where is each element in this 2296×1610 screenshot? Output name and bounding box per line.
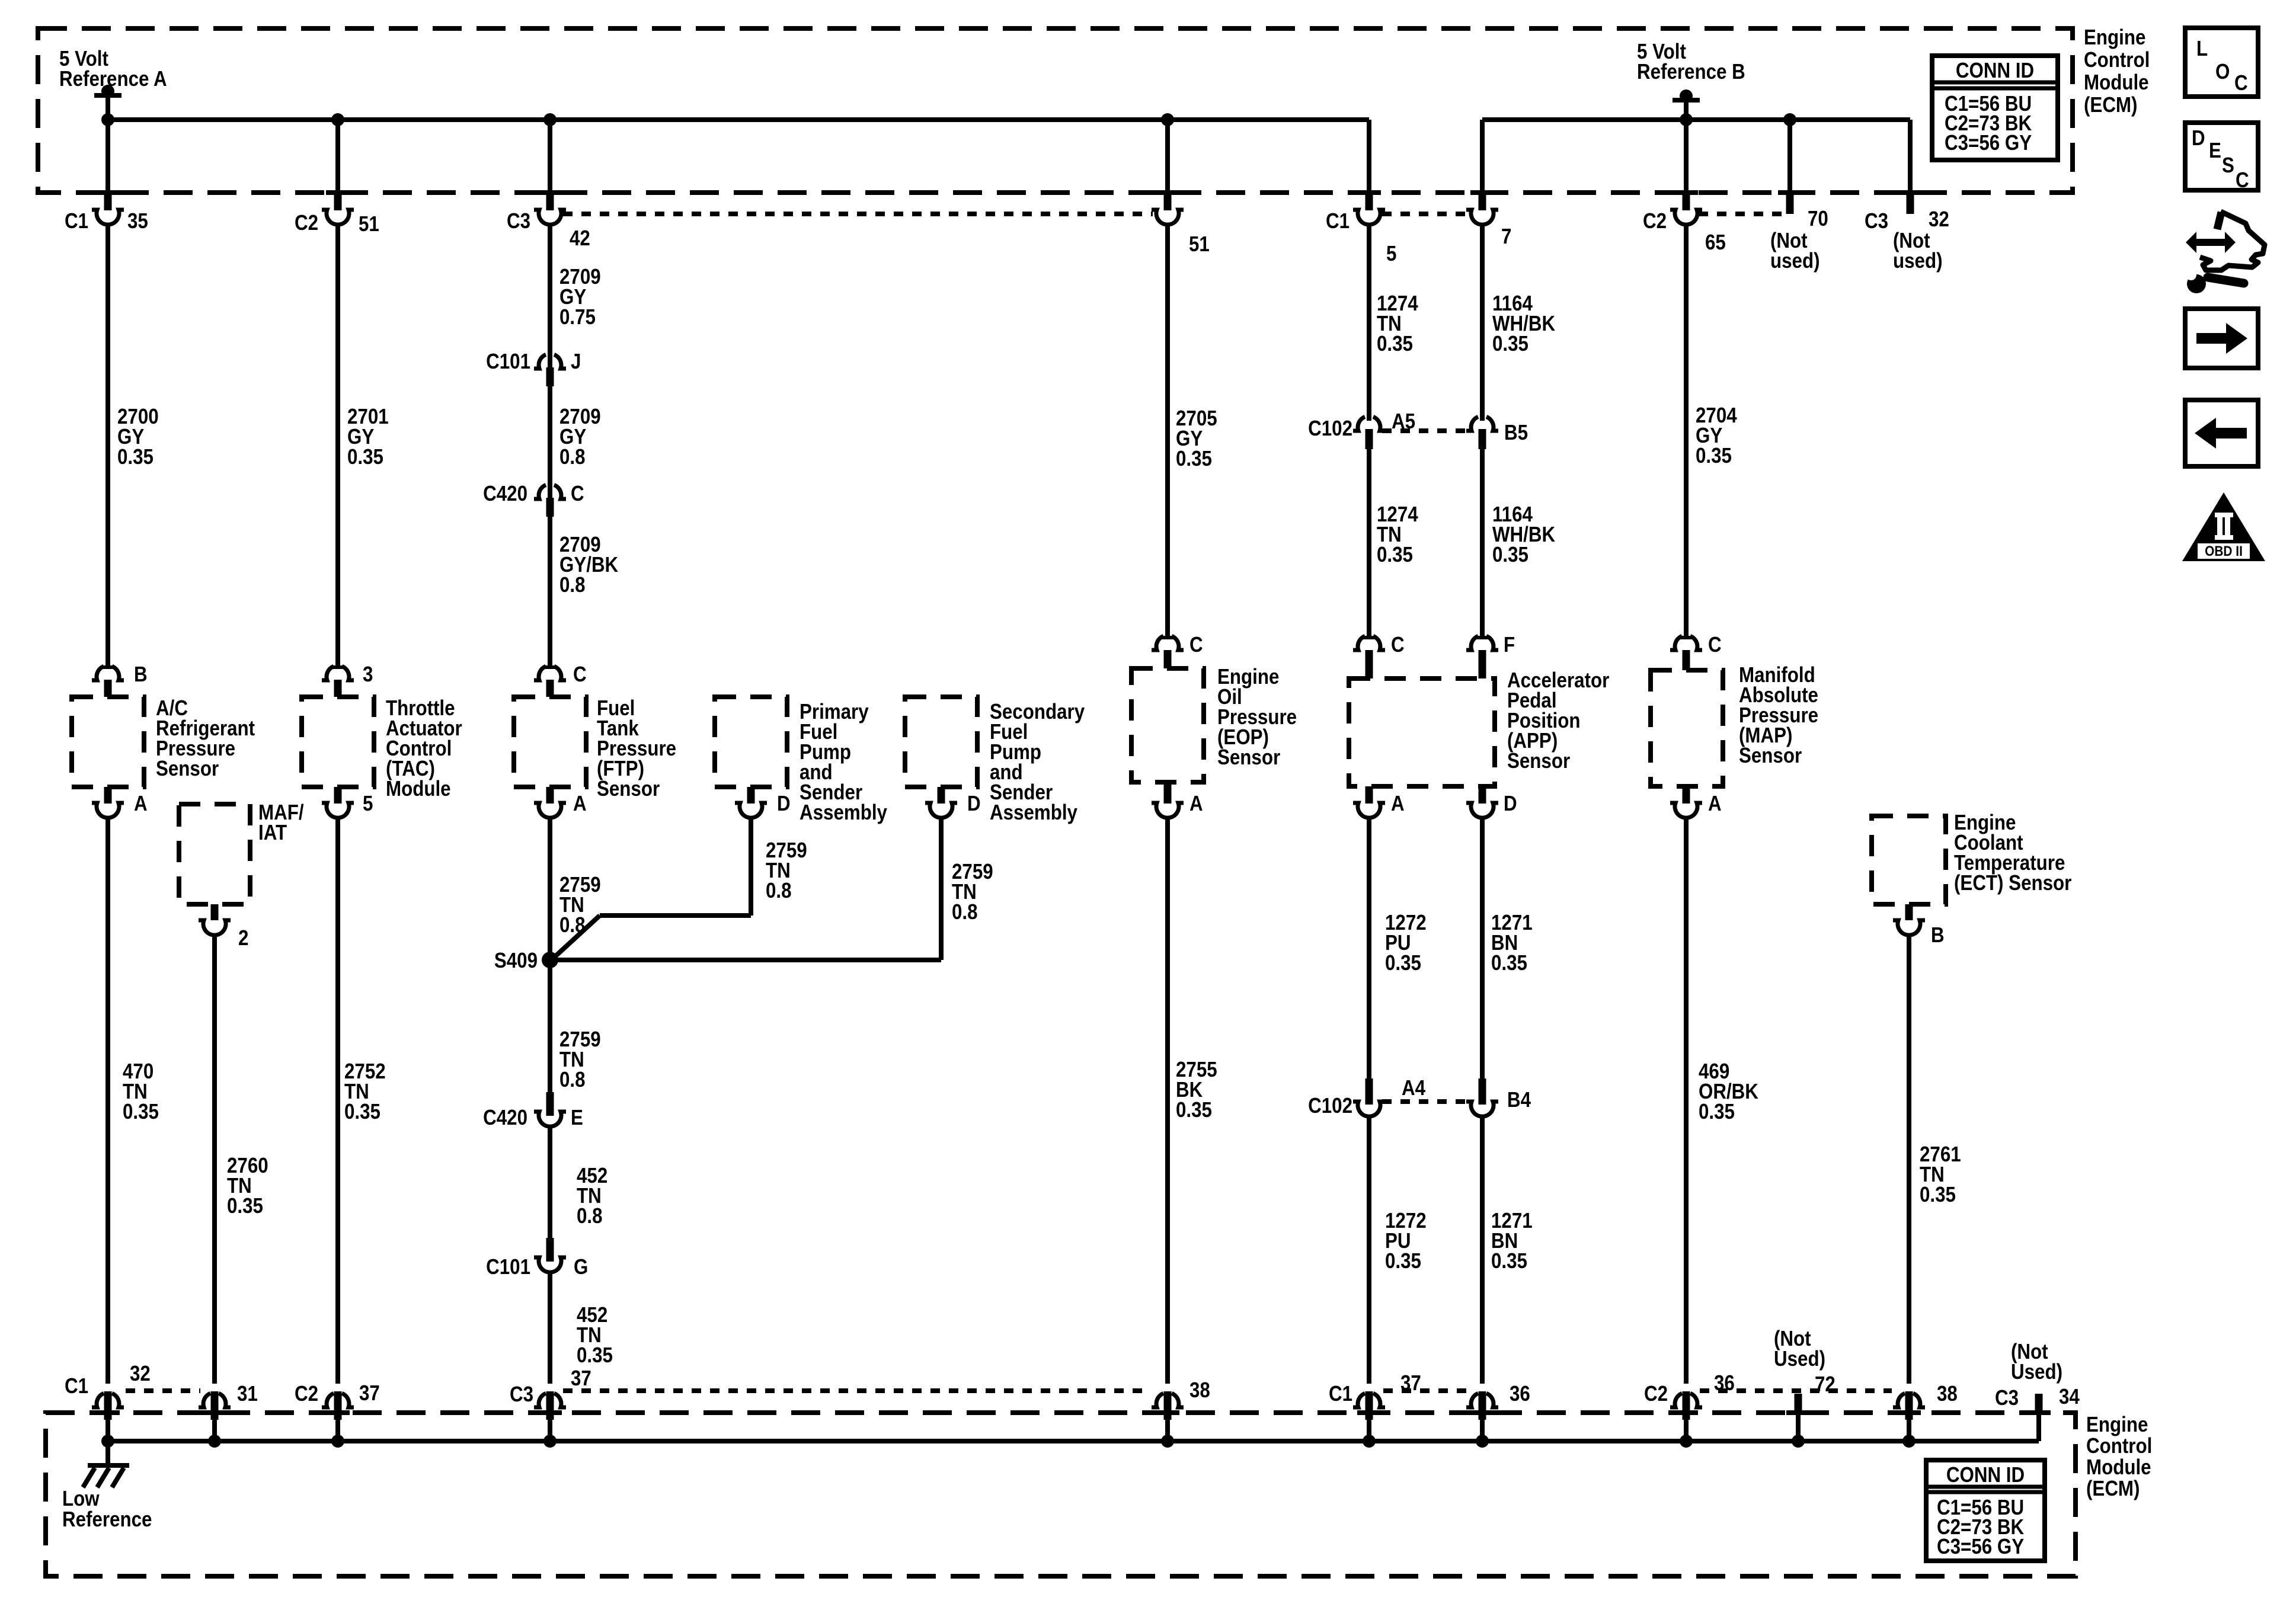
svg-text:E: E	[2209, 139, 2221, 163]
svg-text:B4: B4	[1507, 1088, 1531, 1112]
svg-text:Sensor: Sensor	[597, 777, 660, 801]
svg-text:72: 72	[1815, 1372, 1835, 1397]
svg-text:C: C	[1391, 633, 1405, 657]
svg-text:A: A	[573, 792, 587, 816]
svg-text:C3=56 GY: C3=56 GY	[1937, 1535, 2024, 1559]
svg-text:65: 65	[1705, 231, 1726, 255]
svg-text:Reference: Reference	[62, 1507, 152, 1532]
svg-text:L: L	[2196, 37, 2208, 61]
svg-text:Reference B: Reference B	[1637, 60, 1745, 84]
svg-text:37: 37	[359, 1381, 380, 1406]
svg-text:0.35: 0.35	[344, 1100, 380, 1124]
svg-text:0.8: 0.8	[952, 900, 978, 924]
svg-text:0.35: 0.35	[227, 1194, 263, 1218]
svg-text:0.8: 0.8	[559, 445, 586, 469]
svg-text:A4: A4	[1402, 1076, 1425, 1100]
svg-text:D: D	[1504, 792, 1517, 816]
svg-text:C: C	[2234, 71, 2248, 95]
svg-text:51: 51	[359, 212, 379, 236]
svg-text:A: A	[1391, 792, 1405, 816]
svg-text:Module: Module	[2084, 71, 2149, 95]
svg-text:0.35: 0.35	[1491, 951, 1527, 975]
svg-text:0.35: 0.35	[123, 1100, 159, 1124]
svg-text:0.35: 0.35	[1492, 332, 1528, 356]
svg-text:CONN ID: CONN ID	[1956, 59, 2034, 83]
svg-text:0.35: 0.35	[1176, 447, 1212, 471]
svg-text:J: J	[571, 350, 581, 374]
svg-text:C420: C420	[483, 1106, 527, 1130]
svg-text:0.35: 0.35	[1491, 1249, 1527, 1273]
svg-text:C101: C101	[486, 1255, 530, 1279]
svg-text:Control: Control	[2086, 1434, 2152, 1458]
svg-text:B: B	[1931, 923, 1945, 948]
svg-text:A: A	[134, 792, 148, 816]
svg-text:0.8: 0.8	[559, 1068, 586, 1092]
svg-text:used): used)	[1893, 249, 1943, 273]
svg-text:Sensor: Sensor	[1507, 749, 1570, 773]
svg-text:C: C	[573, 662, 587, 687]
svg-text:A: A	[1189, 792, 1203, 816]
svg-text:42: 42	[570, 226, 590, 251]
svg-text:B: B	[134, 662, 148, 687]
svg-text:0.8: 0.8	[577, 1204, 603, 1228]
svg-text:(ECM): (ECM)	[2086, 1477, 2140, 1501]
svg-text:0.8: 0.8	[766, 879, 792, 903]
svg-text:Assembly: Assembly	[990, 801, 1077, 825]
svg-text:D: D	[967, 792, 981, 816]
svg-text:0.35: 0.35	[577, 1343, 613, 1368]
svg-text:Used): Used)	[1774, 1347, 1825, 1371]
svg-text:Sensor: Sensor	[1217, 745, 1280, 770]
svg-text:C2: C2	[295, 211, 318, 235]
svg-text:C3: C3	[507, 209, 530, 233]
svg-text:5: 5	[363, 792, 373, 816]
svg-text:32: 32	[130, 1362, 151, 1386]
svg-text:0.8: 0.8	[559, 913, 586, 937]
svg-text:CONN ID: CONN ID	[1946, 1463, 2025, 1487]
svg-text:C2: C2	[295, 1382, 318, 1406]
svg-text:C1: C1	[1326, 209, 1350, 233]
svg-text:0.35: 0.35	[1385, 1249, 1421, 1273]
svg-text:0.35: 0.35	[1377, 332, 1413, 356]
svg-text:IAT: IAT	[258, 821, 287, 845]
svg-text:Module: Module	[2086, 1455, 2151, 1480]
svg-text:0.35: 0.35	[1385, 951, 1421, 975]
svg-text:0.8: 0.8	[559, 573, 586, 597]
svg-text:38: 38	[1937, 1382, 1958, 1406]
svg-text:C2: C2	[1643, 209, 1667, 233]
svg-text:7: 7	[1501, 225, 1511, 249]
svg-text:37: 37	[1400, 1371, 1421, 1395]
svg-text:F: F	[1504, 633, 1515, 657]
svg-text:C101: C101	[486, 350, 530, 374]
svg-text:C1: C1	[1329, 1382, 1352, 1406]
svg-text:C3=56 GY: C3=56 GY	[1945, 131, 2032, 155]
svg-text:35: 35	[127, 209, 148, 233]
svg-text:36: 36	[1714, 1371, 1735, 1395]
svg-text:C: C	[2236, 168, 2249, 193]
svg-text:Control: Control	[2084, 48, 2150, 72]
svg-text:Engine: Engine	[2084, 25, 2145, 50]
svg-text:used): used)	[1770, 249, 1820, 273]
svg-text:0.35: 0.35	[1699, 1100, 1735, 1124]
svg-text:C3: C3	[1865, 209, 1888, 233]
svg-text:Engine: Engine	[2086, 1413, 2148, 1437]
svg-text:5: 5	[1386, 242, 1396, 266]
svg-text:2: 2	[238, 926, 248, 950]
svg-text:D: D	[777, 792, 791, 816]
svg-text:0.35: 0.35	[1176, 1098, 1212, 1122]
svg-text:51: 51	[1189, 232, 1210, 257]
svg-text:(ECM): (ECM)	[2084, 93, 2137, 117]
svg-text:0.35: 0.35	[1696, 444, 1732, 468]
svg-text:S: S	[2222, 153, 2234, 178]
svg-text:C102: C102	[1308, 417, 1352, 441]
svg-text:0.75: 0.75	[559, 305, 596, 329]
svg-text:Assembly: Assembly	[800, 801, 887, 825]
svg-text:C: C	[1708, 633, 1722, 657]
svg-text:D: D	[2192, 126, 2205, 151]
svg-text:36: 36	[1510, 1382, 1530, 1406]
svg-text:OBD II: OBD II	[2205, 543, 2243, 559]
svg-text:C: C	[571, 482, 584, 506]
svg-text:0.35: 0.35	[1377, 543, 1413, 567]
svg-text:E: E	[571, 1106, 583, 1130]
svg-text:Reference A: Reference A	[59, 67, 167, 91]
svg-text:37: 37	[571, 1366, 591, 1391]
svg-text:Sensor: Sensor	[1739, 744, 1802, 768]
svg-text:C420: C420	[483, 482, 527, 506]
svg-text:3: 3	[363, 662, 373, 687]
svg-text:70: 70	[1808, 207, 1828, 231]
svg-text:C: C	[1189, 633, 1203, 657]
svg-text:0.35: 0.35	[117, 445, 154, 469]
svg-text:G: G	[574, 1255, 588, 1279]
svg-text:31: 31	[237, 1382, 258, 1406]
svg-text:C102: C102	[1308, 1094, 1352, 1118]
svg-text:38: 38	[1189, 1378, 1210, 1403]
svg-text:C3: C3	[1995, 1386, 2019, 1410]
svg-text:(ECT) Sensor: (ECT) Sensor	[1954, 871, 2071, 895]
svg-text:0.35: 0.35	[1492, 543, 1528, 567]
svg-text:C1: C1	[65, 209, 88, 233]
svg-text:A5: A5	[1392, 409, 1415, 434]
svg-text:S409: S409	[494, 949, 538, 973]
svg-text:C2: C2	[1644, 1382, 1668, 1406]
svg-text:Used): Used)	[2011, 1360, 2062, 1384]
svg-text:C1: C1	[65, 1374, 88, 1398]
svg-text:0.35: 0.35	[1920, 1183, 1956, 1207]
svg-text:0.35: 0.35	[347, 445, 383, 469]
svg-text:A: A	[1708, 792, 1722, 816]
svg-text:O: O	[2215, 60, 2230, 84]
svg-text:C3: C3	[510, 1382, 533, 1407]
svg-text:B5: B5	[1504, 421, 1528, 445]
svg-text:34: 34	[2059, 1385, 2080, 1409]
svg-text:Sensor: Sensor	[156, 757, 219, 781]
svg-text:Module: Module	[386, 777, 451, 801]
svg-text:32: 32	[1929, 207, 1949, 232]
